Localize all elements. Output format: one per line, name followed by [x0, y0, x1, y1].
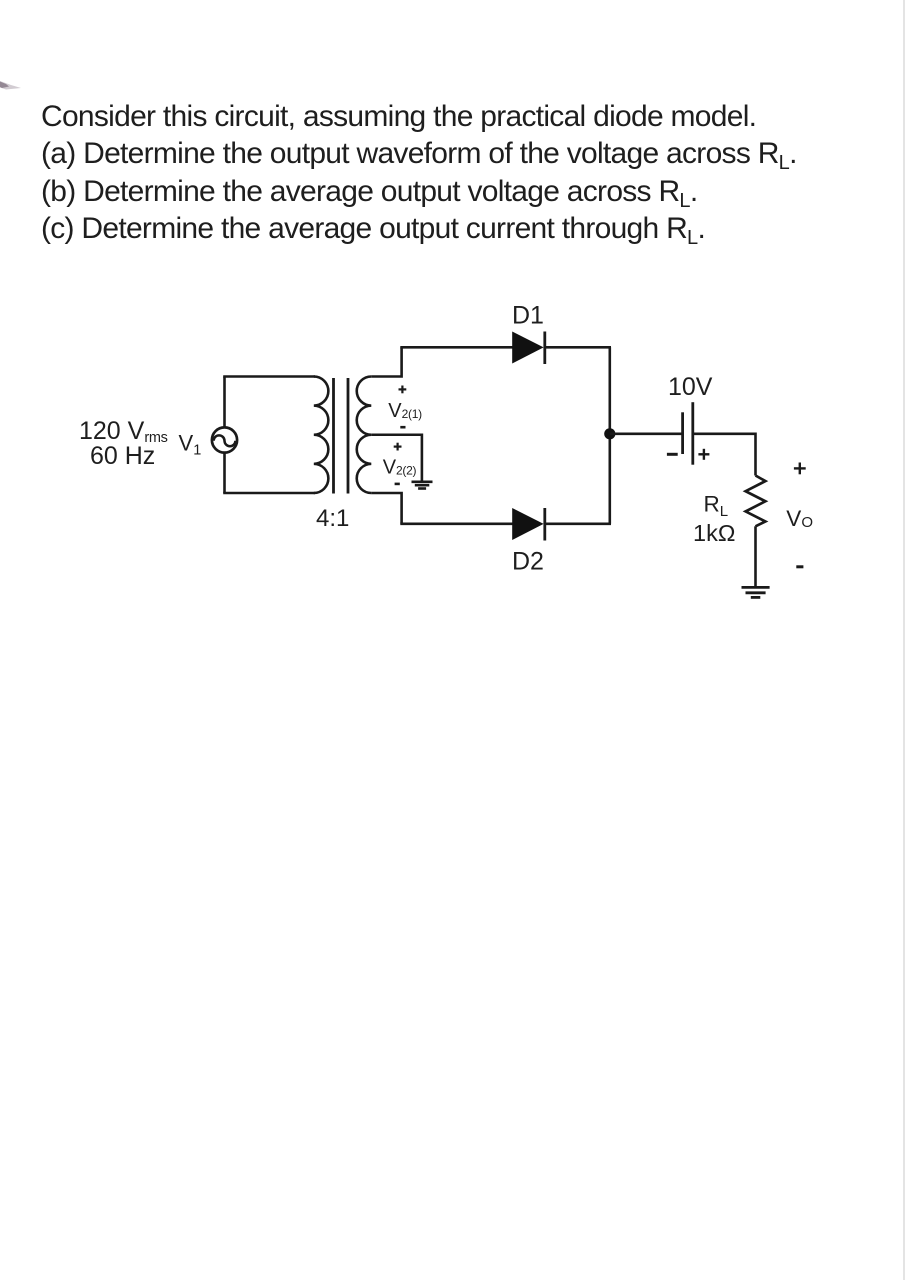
wire: source loop bottom horizontal — [223, 492, 315, 495]
diode D2 — [512, 508, 543, 540]
svg-text:V2(1): V2(1) — [388, 400, 422, 422]
transformer core line left — [332, 378, 335, 494]
problem statement text — [41, 98, 797, 248]
resistor RL — [746, 476, 766, 527]
wire: secondary top lead — [371, 347, 401, 376]
wire: secondary bottom lead — [371, 493, 401, 524]
page curl artifact top-left — [0, 81, 21, 90]
diode D2 cathode bar — [543, 508, 546, 541]
label - (battery minus) — [667, 453, 678, 456]
wire: D2 anode wire — [400, 522, 513, 525]
svg-text:10V: 10V — [668, 373, 713, 401]
wire: source loop left vertical (bottom) — [223, 454, 226, 494]
wire: right bus vertical — [608, 347, 611, 524]
svg-text:4:1: 4:1 — [316, 505, 349, 532]
wire: D1 cathode wire — [545, 346, 611, 349]
svg-text:D2: D2 — [512, 548, 544, 576]
label - (V2(1) minus) — [400, 426, 405, 429]
wire: source loop left vertical (top) — [223, 377, 226, 428]
svg-text:1kΩ: 1kΩ — [693, 520, 735, 546]
svg-text:V1: V1 — [179, 431, 202, 459]
label - (V2(2) minus) — [395, 483, 400, 486]
right page edge line — [903, 0, 905, 1280]
battery 10V short plate — [681, 412, 684, 454]
svg-text:D1: D1 — [512, 302, 544, 330]
wire: D2 cathode wire — [545, 522, 611, 525]
label + (V2(2) plus) — [394, 443, 402, 451]
wire: D1 anode wire — [400, 346, 513, 349]
label - (Vo minus) — [796, 565, 803, 568]
svg-text:60 Hz: 60 Hz — [90, 442, 155, 470]
wire: battery to resistor top — [693, 434, 756, 476]
transformer core line right — [347, 378, 350, 494]
diode D1 — [512, 332, 543, 364]
transformer primary winding — [314, 377, 329, 494]
wire: source loop top horizontal — [223, 375, 315, 378]
label + (battery plus) — [698, 449, 709, 460]
node: diode output junction — [604, 428, 615, 439]
wire: node to battery — [610, 432, 683, 435]
AC source sine symbol — [214, 435, 236, 446]
svg-text:VO: VO — [786, 506, 813, 531]
label + (V2(1) plus) — [399, 386, 407, 394]
svg-text:V2(2): V2(2) — [383, 457, 417, 479]
wire: center tap lead — [371, 435, 422, 482]
AC source V1 — [212, 427, 237, 452]
svg-text:RL: RL — [704, 491, 729, 520]
transformer secondary winding — [357, 377, 372, 494]
ground (output) — [742, 587, 770, 597]
wire: resistor to ground — [754, 526, 757, 587]
diode D1 cathode bar — [543, 332, 546, 365]
battery 10V long plate — [691, 402, 694, 465]
label + (Vo plus) — [794, 463, 806, 475]
ground (center tap) — [412, 482, 433, 489]
